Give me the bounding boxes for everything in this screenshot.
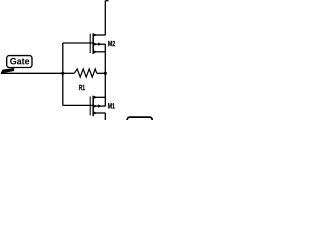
transistor M1 bulk stub [93, 105, 105, 107]
node junction dot right (R1 right / mid rail) [104, 72, 107, 75]
transistor M1 channel bar [92, 96, 94, 117]
transistor M1 source stub [93, 112, 105, 114]
label Gate text [10, 58, 29, 64]
label M1 [108, 103, 115, 108]
transistor M2 bulk stub [93, 43, 105, 45]
label R1 [79, 85, 85, 90]
transistor M1 drain stub [93, 96, 105, 98]
wire: M1 gate lead [63, 104, 93, 106]
wire: M2 gate lead [63, 42, 93, 44]
transistor M1 gate bar [89, 96, 91, 115]
net flag "Gate" pointer triangle [1, 68, 15, 74]
transistor M1 contact tabs [93, 96, 96, 98]
node junction dot left (gate net / R1 left) [61, 72, 64, 75]
transistor M2 bulk arrow [98, 43, 101, 46]
wire: M1 source to bottom edge [104, 113, 106, 120]
callout rounded rectangle [7, 56, 32, 68]
bottom-right callout box (clipped at image edge) [127, 117, 152, 127]
net flag "Gate" callout box [7, 56, 32, 68]
wire: top nub [105, 0, 108, 2]
resistor R1 [63, 69, 106, 77]
wire: left vertical gate rail [62, 43, 64, 105]
transistor M1 bulk arrow [98, 104, 101, 107]
transistor M2 contact tabs [93, 34, 96, 36]
wire: gate input horizontal [1, 72, 63, 74]
wire: top drain rail [104, 1, 106, 36]
transistor M2 drain stub [93, 34, 105, 36]
label M2 [108, 41, 115, 46]
transistor M2 channel bar [92, 33, 94, 54]
wire: mid rail M2 source to M1 bulk [104, 44, 106, 106]
transistor M2 source stub [93, 51, 105, 53]
transistor M2 gate bar [89, 34, 91, 54]
